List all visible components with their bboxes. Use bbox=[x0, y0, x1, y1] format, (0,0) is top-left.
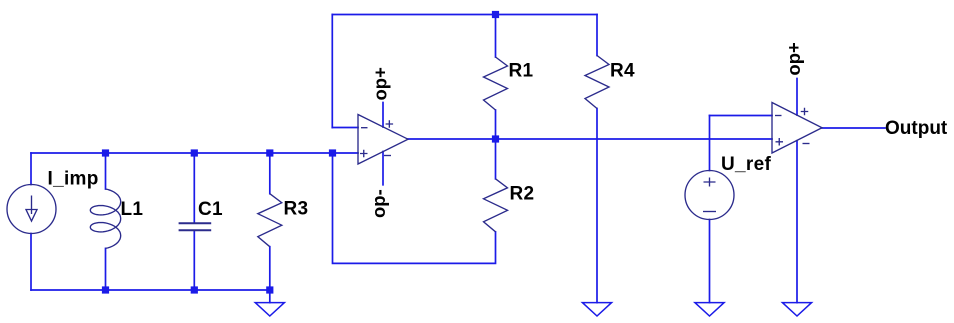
node junction R3 top bbox=[266, 149, 273, 156]
resistor R1 bbox=[484, 57, 508, 110]
wire R1 bottom lead bbox=[495, 110, 497, 139]
node junction C1 bottom bbox=[191, 286, 198, 293]
wire R4 top lead bbox=[596, 15, 598, 56]
node junction R1 top bbox=[492, 11, 499, 18]
wire R3 ground stub bbox=[269, 290, 271, 303]
node junction L1 top bbox=[102, 149, 109, 156]
wire op1 negative power stub bbox=[382, 152, 384, 185]
svg-text:R2: R2 bbox=[510, 184, 535, 205]
wire tank top rail bbox=[31, 152, 333, 154]
ground at U_ref bbox=[695, 303, 724, 316]
wire C1 bottom lead bbox=[193, 231, 195, 290]
svg-text:Output: Output bbox=[885, 118, 948, 139]
wire L1 top lead bbox=[105, 153, 107, 189]
resistor R3 bbox=[258, 194, 282, 247]
wire op1 noninverting input stub bbox=[333, 152, 359, 154]
svg-text:op+: op+ bbox=[783, 42, 804, 76]
voltage source U_ref bbox=[685, 171, 734, 220]
wire op2 inverting input bbox=[710, 115, 773, 117]
wire R3 bottom lead bbox=[269, 247, 271, 290]
inductor L1 bbox=[90, 189, 120, 248]
node junction op1 noninverting bbox=[329, 149, 336, 156]
wire C1 top lead bbox=[193, 153, 195, 223]
resistor R4 bbox=[585, 56, 609, 109]
svg-text:op+: op+ bbox=[370, 67, 391, 101]
svg-text:R4: R4 bbox=[610, 61, 635, 82]
wire R3 top lead bbox=[269, 153, 271, 194]
svg-text:L1: L1 bbox=[121, 199, 144, 220]
wire op2 negative power stub to ground bbox=[796, 141, 798, 303]
svg-text:R1: R1 bbox=[509, 61, 534, 82]
wire op1 inverting input bbox=[332, 127, 358, 129]
resistor R2 bbox=[484, 179, 508, 232]
wire U_ref bottom lead to ground bbox=[709, 220, 711, 303]
svg-text:U_ref: U_ref bbox=[721, 154, 771, 175]
wire I_imp top lead bbox=[30, 153, 32, 185]
wire op2 output bbox=[822, 127, 885, 129]
node junction L1 bottom bbox=[102, 286, 109, 293]
node junction R1 bottom output bbox=[492, 135, 499, 142]
svg-text:I_imp: I_imp bbox=[48, 169, 99, 190]
ground at R3 bbox=[255, 303, 284, 316]
wire R2 bottom return loop bbox=[333, 153, 496, 263]
svg-text:op-: op- bbox=[368, 189, 389, 218]
node junction R3 bottom bbox=[266, 286, 273, 293]
svg-text:C1: C1 bbox=[198, 199, 223, 220]
wire op2 positive power stub bbox=[796, 79, 798, 116]
wire I_imp bottom lead bbox=[30, 234, 32, 291]
wire L1 bottom lead bbox=[105, 248, 107, 290]
ground at U2 bbox=[782, 303, 811, 316]
op-amp U1 bbox=[358, 115, 408, 165]
wire op1 output line bbox=[408, 138, 772, 140]
wire R4 bottom lead to ground bbox=[596, 109, 598, 303]
wire U_ref top lead bbox=[709, 116, 711, 171]
wire R2 top lead bbox=[495, 139, 497, 179]
current source I_imp bbox=[7, 185, 56, 234]
capacitor C1 bbox=[179, 223, 212, 230]
op-amp U2 bbox=[772, 103, 822, 154]
wire tank bottom rail bbox=[31, 289, 270, 291]
wire R1 top lead bbox=[495, 15, 497, 58]
node junction C1 top bbox=[191, 149, 198, 156]
ground at R4 bbox=[582, 303, 611, 316]
wire feedback top rail bbox=[332, 14, 597, 16]
wire feedback left vertical bbox=[331, 15, 333, 128]
wire op1 positive power stub bbox=[382, 103, 384, 128]
svg-text:R3: R3 bbox=[284, 199, 309, 220]
